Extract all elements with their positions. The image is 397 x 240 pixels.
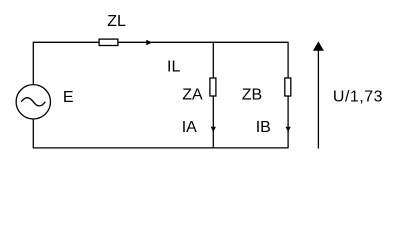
svg-text:IA: IA — [182, 119, 197, 136]
svg-text:ZL: ZL — [107, 13, 126, 30]
svg-text:ZB: ZB — [242, 87, 262, 104]
svg-text:IL: IL — [167, 59, 180, 76]
svg-text:IB: IB — [256, 119, 271, 136]
svg-text:U/1,73: U/1,73 — [333, 89, 383, 106]
svg-text:ZA: ZA — [182, 87, 203, 104]
svg-text:E: E — [63, 89, 74, 106]
